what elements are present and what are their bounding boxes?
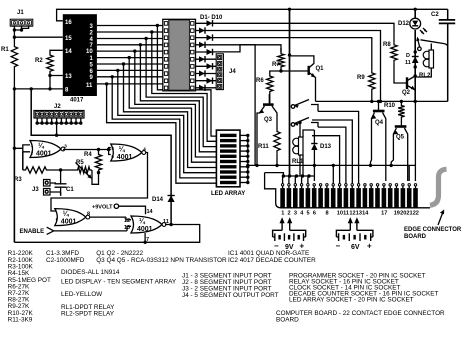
wire pin11 line: [97, 83, 164, 85]
svg-text:IC2 4017 DECADE COUNTER: IC2 4017 DECADE COUNTER: [228, 257, 316, 264]
svg-text:6: 6: [111, 154, 114, 159]
wire fan from 4017 outputs to LED array: [105, 24, 216, 183]
svg-text:13: 13: [65, 74, 72, 80]
svg-text:5: 5: [307, 211, 310, 217]
svg-text:5: 5: [111, 146, 114, 151]
relay RL2 contact lever: [418, 47, 422, 51]
svg-text:Q2: Q2: [402, 90, 411, 96]
svg-text:11: 11: [405, 60, 411, 66]
wire diode output lines to right side: [214, 23, 394, 43]
svg-text:2: 2: [288, 211, 291, 217]
nor-gate IC1d 1/4 4001: [131, 216, 166, 233]
svg-text:COMPUTER BOARD - 22 CONTACT ED: COMPUTER BOARD - 22 CONTACT EDGE CONNECT…: [276, 310, 445, 317]
svg-text:10: 10: [86, 49, 93, 55]
connector J4: [216, 54, 236, 90]
svg-text:3: 3: [64, 144, 67, 149]
svg-text:D: D: [406, 53, 410, 59]
svg-text:14: 14: [65, 49, 72, 55]
svg-text:D13: D13: [320, 144, 332, 150]
svg-text:14: 14: [147, 209, 154, 215]
svg-text:1: 1: [31, 143, 34, 148]
svg-text:Q3 Q4 Q5 - RCA-03S312 NPN TRAN: Q3 Q4 Q5 - RCA-03S312 NPN TRANSISTOR: [96, 257, 227, 264]
svg-text:1: 1: [281, 211, 284, 217]
wire pin7 line: [97, 44, 164, 46]
svg-text:RL2: RL2: [419, 73, 431, 79]
svg-text:EDGE CONNECTOR: EDGE CONNECTOR: [404, 227, 462, 233]
svg-text:ENABLE: ENABLE: [20, 229, 45, 235]
svg-text:4001: 4001: [36, 151, 52, 158]
svg-text:RL2-SPDT RELAY: RL2-SPDT RELAY: [61, 311, 115, 318]
wire gate1 output to gate3: [63, 149, 111, 151]
svg-text:20: 20: [400, 211, 406, 217]
svg-text:D14: D14: [152, 197, 164, 203]
svg-text:11: 11: [86, 83, 93, 89]
relay contacts (switch 1): [291, 105, 295, 109]
svg-text:16: 16: [65, 20, 72, 26]
nor-gate IC1c 1/4 4001: [55, 209, 90, 226]
svg-text:21: 21: [406, 211, 412, 217]
wire drops to edge connector pins 21-22: [409, 101, 415, 181]
svg-text:+9VOLT: +9VOLT: [92, 205, 113, 211]
svg-text:D1- D10: D1- D10: [200, 15, 223, 21]
svg-text:3: 3: [294, 211, 297, 217]
svg-text:R2: R2: [35, 58, 43, 64]
svg-text:R11-3K9: R11-3K9: [8, 316, 33, 323]
svg-text:J3: J3: [32, 187, 39, 193]
svg-text:Q1 Q2 - 2N2222: Q1 Q2 - 2N2222: [96, 250, 143, 257]
battery B1 9V with arrows to pins 1,2: [273, 217, 306, 251]
wire gate1 inputs: [14, 89, 30, 242]
svg-text:15: 15: [65, 36, 72, 42]
connector J3: [32, 180, 50, 196]
svg-text:Q3: Q3: [264, 117, 273, 123]
svg-text:C2-1000MFD: C2-1000MFD: [46, 257, 85, 264]
wire feedback loop bottom: [14, 225, 199, 243]
IC IC2 4017 decade counter: [63, 14, 97, 103]
wire pin5 line: [97, 63, 164, 65]
svg-text:C1: C1: [66, 187, 74, 193]
connector J1: [10, 10, 33, 26]
svg-text:2: 2: [31, 150, 34, 155]
svg-text:BOARD: BOARD: [276, 317, 299, 324]
wire R3 right to node: [50, 170, 76, 184]
svg-text:6: 6: [313, 211, 316, 217]
wire pin8 rail: [14, 88, 62, 90]
edge connector board gray hook: [430, 169, 447, 205]
svg-text:Q4: Q4: [375, 120, 384, 126]
svg-text:6V: 6V: [351, 244, 360, 251]
svg-text:C2: C2: [431, 12, 439, 18]
svg-text:C1-3.3MFD: C1-3.3MFD: [46, 250, 79, 257]
svg-text:12: 12: [124, 218, 130, 224]
svg-text:19: 19: [394, 211, 400, 217]
nor-gate IC1a 1/4 4001: [30, 141, 65, 158]
wire pin3 line: [97, 25, 164, 27]
svg-text:4001: 4001: [61, 219, 77, 226]
wire pin9 line: [97, 76, 164, 78]
svg-text:R4: R4: [84, 152, 92, 158]
wire J2 bus: [37, 123, 82, 135]
wire pin10 line: [97, 50, 164, 52]
relay contacts (switch 2): [291, 123, 295, 127]
svg-text:4001: 4001: [117, 154, 133, 161]
svg-text:13: 13: [356, 211, 362, 217]
svg-text:R1-220K: R1-220K: [8, 250, 34, 257]
svg-text:J2: J2: [54, 104, 61, 110]
svg-text:IC1 4001 QUAD NOR-GATE: IC1 4001 QUAD NOR-GATE: [228, 250, 309, 257]
svg-text:Q1: Q1: [316, 66, 325, 72]
svg-text:Q5: Q5: [396, 135, 405, 141]
svg-text:BOARD: BOARD: [404, 234, 427, 240]
svg-text:LED ARRAY: LED ARRAY: [211, 191, 245, 197]
svg-text:22: 22: [413, 211, 419, 217]
svg-text:LED DISPLAY - TEN SEGMENT ARRA: LED DISPLAY - TEN SEGMENT ARRAY: [61, 279, 177, 286]
svg-text:−: −: [336, 242, 341, 251]
svg-text:R11: R11: [258, 144, 269, 150]
svg-text:DIODES-ALL 1N914: DIODES-ALL 1N914: [61, 269, 120, 276]
wire line y=135.2 to D14: [31, 89, 171, 225]
wire J1 to node: [14, 26, 28, 37]
wire emitter rail: [316, 100, 448, 102]
wire gate3 output down to gate2: [51, 153, 148, 212]
svg-text:LED ARRAY SOCKET - 20 PIN IC S: LED ARRAY SOCKET - 20 PIN IC SOCKET: [289, 297, 414, 304]
wire gate2 out to gate4: [90, 217, 131, 220]
svg-text:14: 14: [362, 211, 369, 217]
svg-text:R6: R6: [256, 78, 264, 84]
svg-text:R3: R3: [14, 177, 22, 183]
wire pin6 line: [97, 69, 164, 71]
svg-text:4001: 4001: [137, 226, 153, 233]
wire pin2 line: [97, 31, 164, 33]
wire top rail riser from pin 16: [57, 9, 448, 20]
wire node to pin15: [14, 36, 62, 38]
svg-text:J1: J1: [17, 10, 24, 16]
wire bus feeding edge connector pins 1-5: [265, 173, 315, 176]
wire pin1 line: [97, 57, 164, 59]
svg-text:R1: R1: [1, 47, 9, 53]
svg-text:R10: R10: [384, 103, 396, 109]
svg-text:LED-YELLOW: LED-YELLOW: [61, 291, 103, 298]
wire pin4 line: [97, 38, 164, 40]
svg-text:11: 11: [343, 211, 349, 217]
battery B2 6V with arrows to pins 11,12: [336, 217, 373, 251]
nor-gate IC1b 1/4 4001: [111, 144, 146, 161]
svg-text:12: 12: [349, 211, 355, 217]
svg-text:4: 4: [143, 147, 146, 152]
svg-text:J4: J4: [229, 69, 236, 75]
svg-text:D12: D12: [398, 21, 410, 27]
svg-text:8: 8: [326, 211, 329, 217]
svg-text:17: 17: [381, 211, 387, 217]
svg-text:RL1: RL1: [292, 159, 304, 165]
wire horizontal rail to edge connector: [248, 165, 416, 183]
svg-text:8: 8: [87, 212, 90, 218]
svg-text:R8: R8: [383, 42, 391, 48]
svg-text:4017: 4017: [70, 98, 84, 104]
connector J2: [34, 104, 84, 125]
programmer IC socket (20-pin, gray): [163, 19, 196, 91]
wire main vertical trunk (+9V net): [289, 9, 291, 176]
svg-text:R9: R9: [357, 75, 365, 81]
svg-text:10: 10: [337, 211, 343, 217]
svg-text:+: +: [367, 242, 372, 251]
svg-text:J4 - 5 SEGMENT OUTPUT PORT: J4 - 5 SEGMENT OUTPUT PORT: [182, 292, 279, 299]
